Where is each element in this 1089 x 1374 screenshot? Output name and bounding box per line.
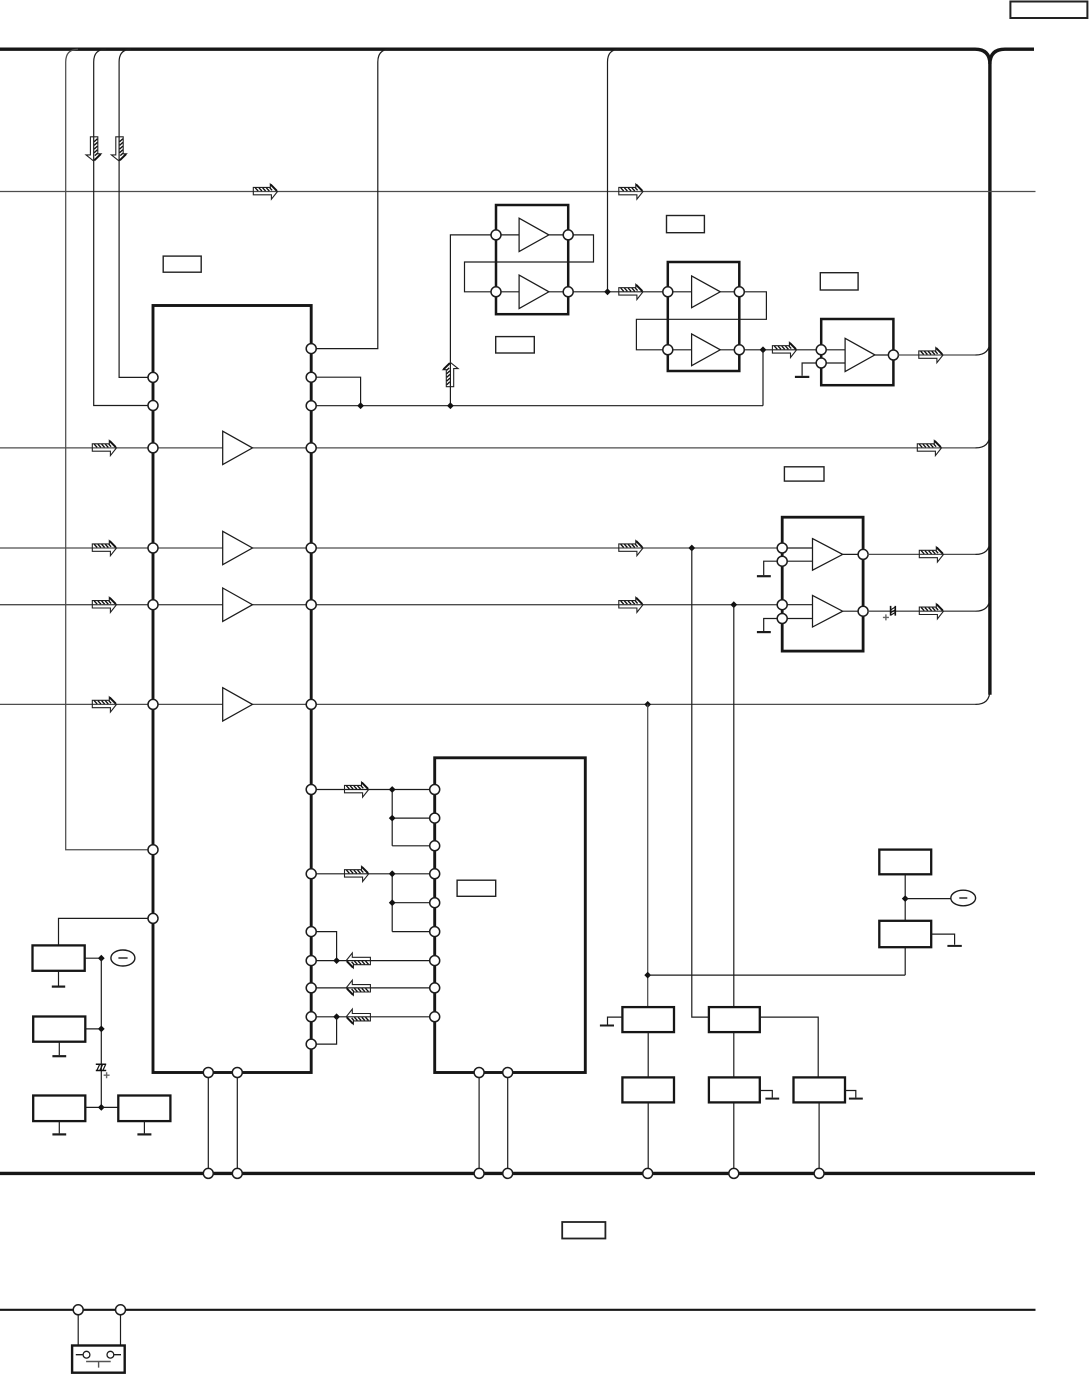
- pin U4 out1: [858, 549, 868, 559]
- wire B7 to ground bus: [647, 1102, 649, 1169]
- component box B7: [622, 1077, 674, 1102]
- component box B8: [709, 1077, 760, 1102]
- pins IC U1 bottom edge: [203, 1068, 213, 1078]
- ground U5: [795, 376, 809, 378]
- wire U5 internal stubs: [826, 350, 889, 363]
- wire U4 output2 merge curve: [976, 597, 990, 611]
- wire row b branch 2: [392, 931, 430, 933]
- wire B8 to ground bus: [733, 1102, 735, 1169]
- wire row a branch vertical: [391, 790, 393, 846]
- wire IC1 to IC2 row b: [316, 873, 430, 875]
- component box B6: [709, 1007, 760, 1032]
- wire B11 to ground: [931, 934, 954, 945]
- wire U5 output merge curve: [976, 341, 990, 355]
- arrow input row 1: [92, 441, 116, 456]
- junction row a branch: [389, 815, 396, 822]
- wire bus drop x=378 to IC1 output pin: [316, 49, 390, 348]
- buffer U2b: [519, 275, 549, 308]
- arrow down on bus drop x=94: [86, 137, 101, 161]
- component box B11: [879, 921, 931, 947]
- junction x=648 / y=975 line: [644, 972, 651, 979]
- polarity mark + hatch on U4 output2: [891, 606, 896, 616]
- junction U3 output branch: [760, 346, 767, 353]
- switch S1 (power switch): [72, 1346, 125, 1373]
- label box L1: [163, 256, 201, 272]
- pins on lower rail: [73, 1305, 83, 1315]
- wire B10 to B11: [904, 874, 906, 921]
- wire to test point TP2: [905, 898, 951, 900]
- op-amp U5 (output buffer): [821, 319, 893, 385]
- pins IC U6 left edge: [430, 785, 440, 795]
- junction U2 output / bus drop: [604, 288, 611, 295]
- component box B9: [794, 1077, 846, 1102]
- ground bus (bottom): [0, 1172, 1035, 1175]
- wire IC2 to IC1 row d: [316, 987, 430, 989]
- pin U5 out: [888, 350, 898, 360]
- wire row a branch 2: [392, 845, 430, 847]
- wire signal row 4: [0, 703, 976, 705]
- component box R2: [33, 1017, 85, 1042]
- buffer A4 inside U1 row4: [223, 688, 253, 721]
- switch S1 contacts: [83, 1351, 90, 1358]
- wire lower horizontal rail: [0, 1309, 1036, 1311]
- ground R2: [52, 1055, 66, 1057]
- ground B11: [947, 945, 961, 947]
- wire IC1 to IC2 row a: [316, 789, 430, 791]
- ground R3: [52, 1133, 66, 1135]
- wire bus drop x=608 to buffer U2 output net: [608, 49, 620, 292]
- polarity hatch mark on x=101 rail: [96, 1064, 106, 1070]
- wire U2a output loop to U2b input: [465, 235, 594, 292]
- arrow left row d: [346, 980, 370, 995]
- arrow right row b: [345, 866, 369, 881]
- wire B6 output to B9: [760, 1017, 818, 1077]
- op-amp block U2 (dual buffer): [496, 205, 568, 314]
- wire IC1 pin stub up to row e: [316, 1017, 337, 1044]
- wire rail to switch S1 terminal 2: [120, 1314, 122, 1345]
- buffer U3b: [692, 334, 721, 366]
- wire bus drop x=66 to IC1 pin: [66, 49, 149, 850]
- junction row a: [389, 786, 396, 793]
- wire U4b inverting input to ground: [764, 619, 778, 632]
- component box B10: [879, 850, 931, 875]
- junction row b branch: [389, 899, 396, 906]
- wire feedback row y=406: [316, 405, 763, 407]
- junction U2 feed / feedback row: [447, 402, 454, 409]
- label box L2 (under U2): [496, 337, 535, 353]
- arrow on U4 output1: [919, 547, 943, 562]
- junction row2 branch down: [688, 545, 695, 552]
- pin U2 in b: [491, 287, 501, 297]
- ground R1: [52, 985, 65, 987]
- wire IC1 bottom pin 1 to ground bus: [207, 1073, 209, 1170]
- pin U4 in1-: [777, 556, 787, 566]
- wire U4 internal stubs: [787, 548, 859, 619]
- arrow on row1 right end: [917, 441, 941, 456]
- wire R1 to ground: [58, 971, 60, 986]
- junction row3 branch down: [730, 601, 737, 608]
- buffer A2 inside U1 row2: [223, 531, 253, 564]
- junction row4 branch down: [644, 701, 651, 708]
- pins IC U6 bottom edge: [474, 1068, 484, 1078]
- arrow input row 3: [92, 597, 116, 612]
- pin U3 out b: [734, 345, 744, 355]
- pins on ground bus: [203, 1168, 213, 1178]
- pin U4 in2-: [777, 614, 787, 624]
- wire R2 to ground: [58, 1042, 60, 1056]
- junction row c: [333, 957, 340, 964]
- buffer A1 inside U1 row1: [223, 431, 253, 464]
- pins IC U1 left edge: [148, 372, 158, 382]
- wire U6 bottom pin 1 to ground bus: [478, 1073, 480, 1170]
- wire signal row 3: [0, 604, 782, 606]
- op-amp block U4 (dual power amp): [782, 517, 863, 651]
- wire row a branch 1: [392, 817, 430, 819]
- arrow input row 2: [92, 541, 116, 556]
- wire R1 to junction: [85, 957, 102, 959]
- wire signal row 1: [0, 447, 976, 449]
- junction row b: [389, 870, 396, 877]
- pin U5 in+: [816, 345, 826, 355]
- arrow input row 4: [92, 697, 116, 712]
- wire row 4 merge curve into rail: [976, 690, 990, 704]
- op-amp block U3 (dual buffer): [668, 262, 740, 371]
- wire R2 to junction rail: [85, 1028, 101, 1030]
- ground step symbol left of B5: [608, 1017, 623, 1024]
- wire rail to switch S1 terminal 1: [77, 1314, 79, 1345]
- ground U4a: [757, 575, 771, 577]
- wire IC2 to IC1 row e: [316, 1016, 430, 1018]
- wire U3b output to U5: [744, 349, 817, 351]
- arrow right row a: [345, 782, 369, 797]
- wire U4 output1 merge curve: [976, 540, 990, 554]
- label box L5 (above U4): [784, 467, 824, 481]
- wire top bus right stub merging into rail: [990, 49, 1034, 64]
- wire IC1 pin stub down to row c: [316, 932, 337, 961]
- wire IC1 pin to R1: [59, 918, 149, 945]
- junction R2: [98, 1026, 105, 1033]
- wire bus drop x=94 to IC1 pin: [94, 49, 149, 405]
- component box R4: [118, 1096, 170, 1122]
- wire top supply bus and right vertical rail: [0, 49, 990, 695]
- arrow down on bus drop x=119: [111, 137, 126, 161]
- pin U4 in2+: [777, 600, 787, 610]
- wire U3a output loop to U3b input: [636, 292, 766, 350]
- component box R3: [33, 1096, 85, 1122]
- amp U4b: [813, 595, 843, 627]
- wire row 1 merge curve into rail: [976, 434, 990, 448]
- wire vertical x=101 junction rail: [100, 958, 102, 1107]
- wire signal line top (y=191): [0, 191, 1036, 193]
- wire vertical x=648 from row4 down to B5: [647, 704, 649, 1007]
- wire U3 internal stubs: [672, 292, 734, 350]
- test point TP2 (minus oval): [951, 890, 976, 906]
- wire IC2 to IC1 row c: [316, 960, 430, 962]
- wire U2b output to U3 input: [573, 291, 663, 293]
- op-amp U5 triangle: [845, 338, 875, 371]
- arrow right on top signal line (second): [619, 184, 643, 199]
- arrow left row c: [346, 953, 370, 968]
- junction row e: [333, 1013, 340, 1020]
- arrow right on top signal line: [253, 184, 277, 199]
- wire U5 output line: [898, 354, 976, 356]
- pins IC U1 right edge: [306, 344, 316, 354]
- ground step symbol right of B8: [760, 1091, 773, 1098]
- junction stub / feedback row: [357, 402, 364, 409]
- arrow on U4 output2: [919, 604, 943, 619]
- component box B5: [622, 1007, 674, 1032]
- buffer A3 inside U1 row3: [223, 588, 253, 621]
- ground step symbol right of B9: [845, 1091, 856, 1098]
- test point TP1 (minus oval): [111, 950, 135, 966]
- wire U2 internal stubs: [501, 235, 564, 292]
- arrow on U5 output: [919, 348, 943, 363]
- component box R1: [33, 945, 85, 970]
- wire R4 to ground: [143, 1121, 145, 1133]
- pin U2 in a: [491, 230, 501, 240]
- arrow up on U2 feed wire: [443, 363, 458, 387]
- pin U3 in b: [663, 345, 673, 355]
- wire U4 output 1: [868, 553, 976, 555]
- wire B11 down to y=975 line: [904, 947, 906, 975]
- wire R3 to ground: [58, 1121, 60, 1133]
- wire row b branch vertical: [391, 874, 393, 932]
- buffer U3a: [692, 276, 721, 308]
- pin U4 in1+: [777, 543, 787, 553]
- wire B9 to ground bus: [818, 1102, 820, 1169]
- arrow right to U3: [619, 284, 643, 299]
- wire U4a inverting input to ground: [764, 561, 778, 575]
- wire vertical x=692 from row2 down to B6: [692, 548, 709, 1017]
- wire row b branch 1: [392, 902, 430, 904]
- label box L4 (above U5): [820, 273, 858, 290]
- wire U4 output 2: [868, 610, 976, 612]
- wire drop from U3 output to feedback row: [762, 350, 764, 406]
- wire U6 bottom pin 2 to ground bus: [507, 1073, 509, 1170]
- label box L6 (inside U6): [457, 880, 496, 896]
- wire feed to U2 input (vertical x=450): [450, 235, 491, 406]
- wire switch contact stubs: [76, 1354, 121, 1356]
- IC U1 main processor block: [153, 306, 311, 1073]
- wire vertical x=734 from row3 down to B6: [733, 605, 735, 1007]
- label box top-right corner: [1010, 2, 1087, 19]
- wire IC1 bottom pin 2 to ground bus: [236, 1073, 238, 1170]
- arrow right row3 to U4: [619, 597, 643, 612]
- wire junction to R4: [101, 1106, 118, 1108]
- pin U2 out b: [563, 287, 573, 297]
- wire U5 inverting input to ground: [802, 363, 817, 376]
- pin U3 out a: [734, 287, 744, 297]
- arrow left row e: [346, 1009, 370, 1024]
- wire signal row 2: [0, 547, 782, 549]
- arrow right row2 to U4: [619, 541, 643, 556]
- wire IC1 pin to feedback row stub: [316, 377, 361, 406]
- junction R1 / test point TP1: [98, 955, 105, 962]
- switch S1 actuator bar: [86, 1362, 111, 1368]
- pin U3 in a: [663, 287, 673, 297]
- pin U2 out a: [563, 230, 573, 240]
- label box L7 (bottom): [562, 1222, 605, 1239]
- IC U6 second processor block: [435, 758, 586, 1073]
- ground R4: [137, 1133, 151, 1135]
- pin U5 in-: [816, 358, 826, 368]
- wire bus drop x=119 to IC1 pin: [119, 49, 148, 377]
- wire R3 to junction: [85, 1106, 101, 1108]
- junction R3/R4: [98, 1104, 105, 1111]
- wire B6 to B8: [733, 1032, 735, 1077]
- pin U4 out2: [858, 606, 868, 616]
- wire B5 to B7: [647, 1032, 649, 1077]
- ground U4b: [757, 631, 771, 633]
- label box L3 (above U3): [667, 216, 705, 233]
- junction B10-B11 / test point: [902, 895, 909, 902]
- wire horizontal y=975: [648, 974, 906, 976]
- arrow right to U5: [772, 342, 796, 357]
- buffer U2a: [519, 218, 549, 251]
- amp U4a: [813, 539, 843, 571]
